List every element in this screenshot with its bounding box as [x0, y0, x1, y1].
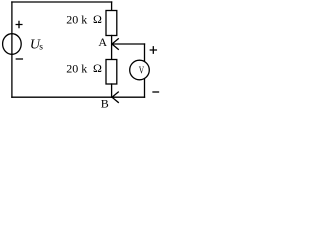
- node A arrowhead: [112, 39, 118, 50]
- source minus sign: [16, 58, 22, 60]
- svg-text:V: V: [139, 65, 145, 76]
- wire voltmeter top lead: [144, 44, 146, 61]
- voltmeter minus sign: [153, 91, 159, 93]
- node B arrowhead: [112, 92, 118, 102]
- svg-text:B: B: [101, 97, 109, 111]
- wire voltmeter bottom lead: [144, 79, 146, 98]
- resistor R2 20k body: [106, 60, 117, 85]
- svg-text:20 k: 20 k: [66, 62, 87, 76]
- voltmeter plus sign: [150, 47, 156, 53]
- wire bottom horizontal: [12, 96, 145, 98]
- voltmeter V circle: [130, 60, 150, 80]
- wire top horizontal: [12, 1, 112, 3]
- wire left vertical: [11, 2, 13, 97]
- svg-text:A: A: [98, 35, 107, 49]
- source Us circle: [3, 34, 22, 55]
- svg-text:Ω: Ω: [93, 61, 102, 75]
- svg-text:Ω: Ω: [93, 12, 102, 26]
- source plus sign: [16, 21, 22, 27]
- wire probe shaft to node A: [112, 43, 145, 45]
- svg-text:s: s: [39, 42, 43, 52]
- resistor R1 20k body: [106, 11, 117, 36]
- wire drop to R1: [111, 2, 113, 11]
- wire R1 to R2 through node A: [111, 36, 113, 60]
- wire R2 to bottom: [111, 84, 113, 97]
- svg-text:20 k: 20 k: [66, 13, 87, 27]
